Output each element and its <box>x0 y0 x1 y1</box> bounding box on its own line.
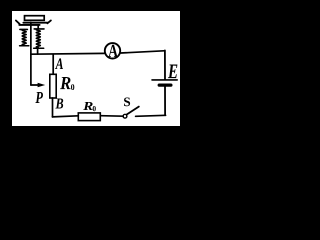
battery label E <box>168 65 178 79</box>
node label B <box>55 99 63 109</box>
electromagnet yoke bar upper line <box>23 22 47 24</box>
wire: ammeter to right corner <box>121 51 164 53</box>
wire: rheostat top to top wire <box>52 54 54 74</box>
switch label S <box>124 98 130 107</box>
wire: right vertical upper <box>164 50 166 79</box>
ammeter A1 circle <box>105 43 120 58</box>
wire: left bottom vertical <box>52 98 54 117</box>
electromagnet yoke bar lower line <box>19 24 39 26</box>
wire: center vertical from yoke down to wiper arrow <box>30 22 32 85</box>
wire: stub yoke to right coil top <box>37 25 39 29</box>
wire: right vertical lower <box>164 87 166 116</box>
wiper label P <box>35 92 43 103</box>
resistor label R0 (bottom) <box>83 102 93 110</box>
wiper arrow line P <box>31 84 38 86</box>
coil L1 bottom cap <box>20 45 29 47</box>
wire: resistor R0 to switch <box>101 115 123 118</box>
wire: top left segment to ammeter <box>31 52 104 55</box>
yoke left support tick <box>16 21 20 24</box>
wiper arrowhead <box>38 83 46 88</box>
resistor R0 box (bottom) <box>78 113 100 121</box>
switch S blade <box>126 107 139 115</box>
paper background <box>12 11 180 126</box>
battery E long plate <box>152 79 177 81</box>
rheostat R0 box (vertical) <box>50 74 56 98</box>
coil L2 top cap <box>34 28 44 30</box>
coil L1 top cap <box>20 28 28 30</box>
electromagnet armature bar (rectangle) <box>25 16 45 21</box>
ammeter letter A <box>108 45 118 57</box>
coil L2 bottom cap <box>34 47 44 49</box>
wire: bottom left corner to resistor R0 <box>52 116 78 117</box>
node label A <box>55 58 63 69</box>
wire: coil L2 to top wire <box>37 48 39 54</box>
coil L2 winding <box>36 29 40 48</box>
wire: bottom right to switch contact <box>136 115 166 116</box>
battery E short plate <box>159 83 171 86</box>
switch S pivot <box>123 114 127 118</box>
rheostat label R0 <box>60 77 71 89</box>
yoke right support tick <box>47 20 51 23</box>
coil L1 winding <box>22 30 26 46</box>
